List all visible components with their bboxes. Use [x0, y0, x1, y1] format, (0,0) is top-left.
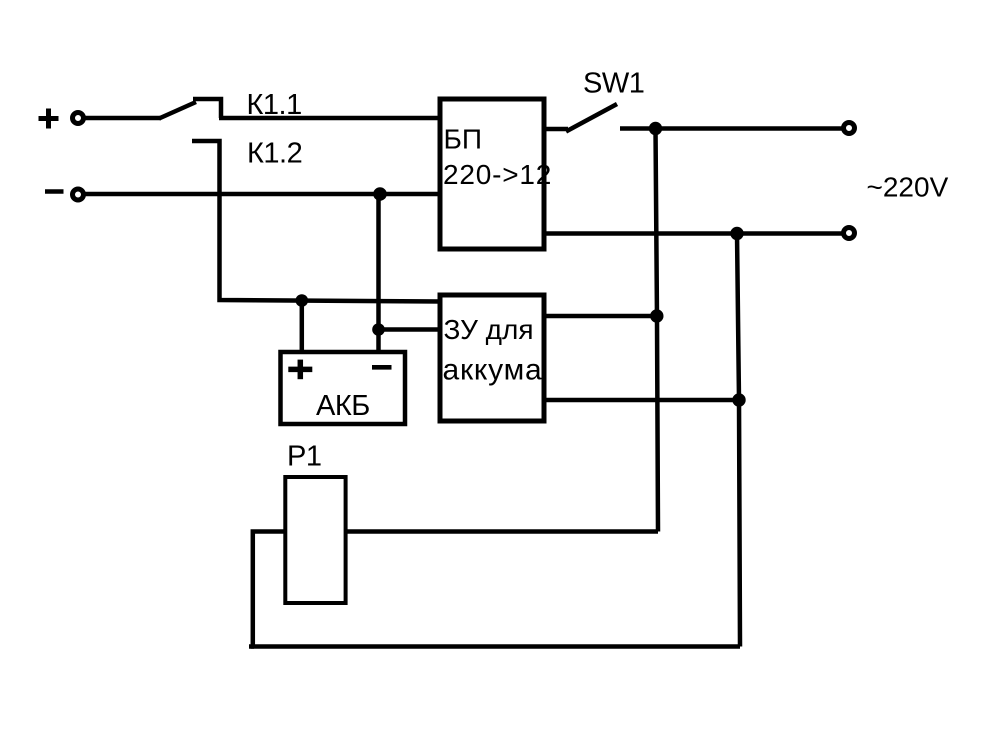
- svg-text:220->12: 220->12: [443, 159, 552, 190]
- svg-text:К1.2: К1.2: [247, 138, 302, 170]
- svg-text:аккума: аккума: [443, 354, 543, 387]
- svg-text:SW1: SW1: [583, 68, 644, 100]
- svg-text:ЗУ для: ЗУ для: [444, 314, 534, 345]
- svg-text:~220V: ~220V: [867, 172, 949, 203]
- svg-text:БП: БП: [444, 124, 483, 155]
- svg-text:Р1: Р1: [287, 441, 321, 473]
- svg-text:АКБ: АКБ: [316, 390, 370, 422]
- svg-text:К1.1: К1.1: [247, 89, 302, 121]
